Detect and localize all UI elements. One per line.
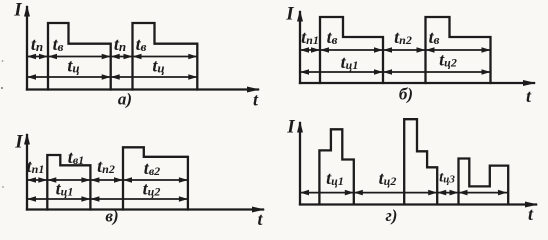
svg-text:б): б): [399, 85, 413, 104]
diagram г: current pulse group 2 outline (descending steps): [404, 119, 437, 204]
scan speck: [2, 186, 4, 188]
svg-text:I: I: [13, 0, 22, 21]
diagram г: current pulse group 3 outline (two pulses with dip): [459, 159, 509, 205]
diagram в: current pulse 2 outline: [123, 147, 188, 209]
diagram б: dimension arrow cycle t_ц1: [300, 69, 383, 75]
diagram а: dimension arrow on-time t_в (cycle 1): [48, 54, 111, 60]
svg-text:в): в): [105, 207, 118, 226]
diagram б: dimension arrow pause t_п2: [383, 47, 426, 53]
diagram г: vertical current axis I: [297, 121, 303, 204]
diagram б: dimension arrow pause t_п1: [300, 47, 320, 53]
diagram в: dimension arrow pause t_п1: [27, 177, 47, 183]
svg-text:I: I: [285, 4, 294, 25]
diagram г: dimension arrow cycle t_ц3: [437, 190, 458, 196]
diagram в: current pulse 1 outline: [47, 155, 90, 210]
diagram в: dimension arrow cycle t_ц1: [27, 196, 90, 202]
diagram а: dimension arrow on-time t_в (cycle 2): [133, 54, 198, 60]
svg-text:I: I: [14, 132, 23, 153]
svg-text:I: I: [286, 117, 295, 138]
diagram а: vertical current axis I: [24, 5, 30, 90]
diagram б: dimension arrow on-time t_в (cycle 1): [320, 47, 383, 53]
scan speck: [2, 60, 4, 62]
diagram в: dimension arrow cycle t_ц2: [90, 196, 187, 202]
diagram в: horizontal time axis t: [27, 207, 265, 213]
diagram г: dimension arrow under pulse group 3: [459, 190, 508, 196]
diagram б: current pulse 1 outline: [320, 17, 383, 83]
svg-text:а): а): [118, 90, 132, 109]
diagram а: current pulse 1 outline: [48, 23, 111, 90]
diagram б: vertical current axis I: [297, 10, 303, 83]
diagram а: current pulse 2 outline: [133, 23, 198, 90]
diagram г: horizontal time axis t: [300, 202, 538, 208]
diagram б: current pulse 2 outline: [426, 17, 491, 83]
diagram б: dimension arrow on-time t_в (cycle 2): [426, 47, 491, 53]
diagram в: vertical current axis I: [24, 133, 30, 210]
diagram б: dimension arrow cycle t_ц2: [383, 69, 491, 75]
diagram а: horizontal time axis t: [27, 87, 260, 93]
scan speck: [1, 87, 3, 89]
diagram в: dimension arrow pause t_п2: [90, 177, 123, 183]
diagram а: dimension arrow cycle t_ц (cycle 2): [111, 74, 198, 80]
diagram а: dimension arrow pause t_п (cycle 2): [111, 54, 133, 60]
diagram б: horizontal time axis t: [300, 80, 536, 86]
diagram в: dimension arrow on-time t_в2: [123, 177, 188, 183]
diagram а: dimension arrow cycle t_ц (cycle 1): [27, 74, 111, 80]
svg-text:г): г): [386, 206, 398, 225]
diagram а: dimension arrow pause t_п (cycle 1): [27, 54, 48, 60]
diagram г: dimension arrow cycle t_ц1: [300, 190, 354, 196]
diagram г: current pulse group 1 outline (staircase): [319, 129, 353, 204]
diagram г: dimension arrow cycle t_ц2: [354, 190, 437, 196]
diagram в: dimension arrow on-time t_в1: [47, 177, 90, 183]
